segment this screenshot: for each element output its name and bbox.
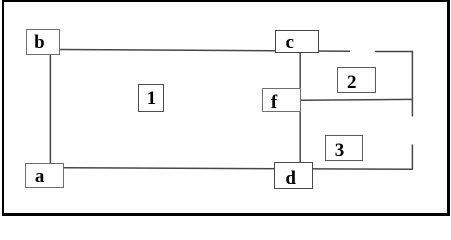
block 2 box xyxy=(337,67,376,93)
wire right vertical lower segment xyxy=(411,144,413,169)
node b label xyxy=(34,33,45,52)
block 3 box xyxy=(325,135,364,162)
wire right vertical upper segment xyxy=(411,51,413,117)
node a box xyxy=(25,163,64,189)
wire a-d-right horizontal xyxy=(64,168,413,169)
wire c-d vertical xyxy=(299,53,301,163)
node d box xyxy=(274,162,312,188)
frame bottom border xyxy=(2,213,450,217)
block 1 label xyxy=(147,89,157,108)
wire b-c horizontal (left of gap) xyxy=(60,50,350,52)
block 3 label xyxy=(335,141,345,160)
frame left border xyxy=(2,0,4,216)
frame right border xyxy=(447,0,450,216)
node c label xyxy=(286,33,294,52)
block 2 label xyxy=(347,73,357,92)
node a label xyxy=(35,167,45,186)
node c box xyxy=(275,30,319,54)
wire b-a vertical xyxy=(49,55,51,164)
wire f-right horizontal xyxy=(301,98,414,101)
node f label xyxy=(271,93,277,112)
node b box xyxy=(26,29,60,55)
wire gap-corner horizontal (right of gap) xyxy=(375,51,413,53)
node d label xyxy=(285,169,296,188)
frame top border xyxy=(2,0,450,2)
node f box xyxy=(262,88,300,113)
block 1 box xyxy=(138,84,164,112)
